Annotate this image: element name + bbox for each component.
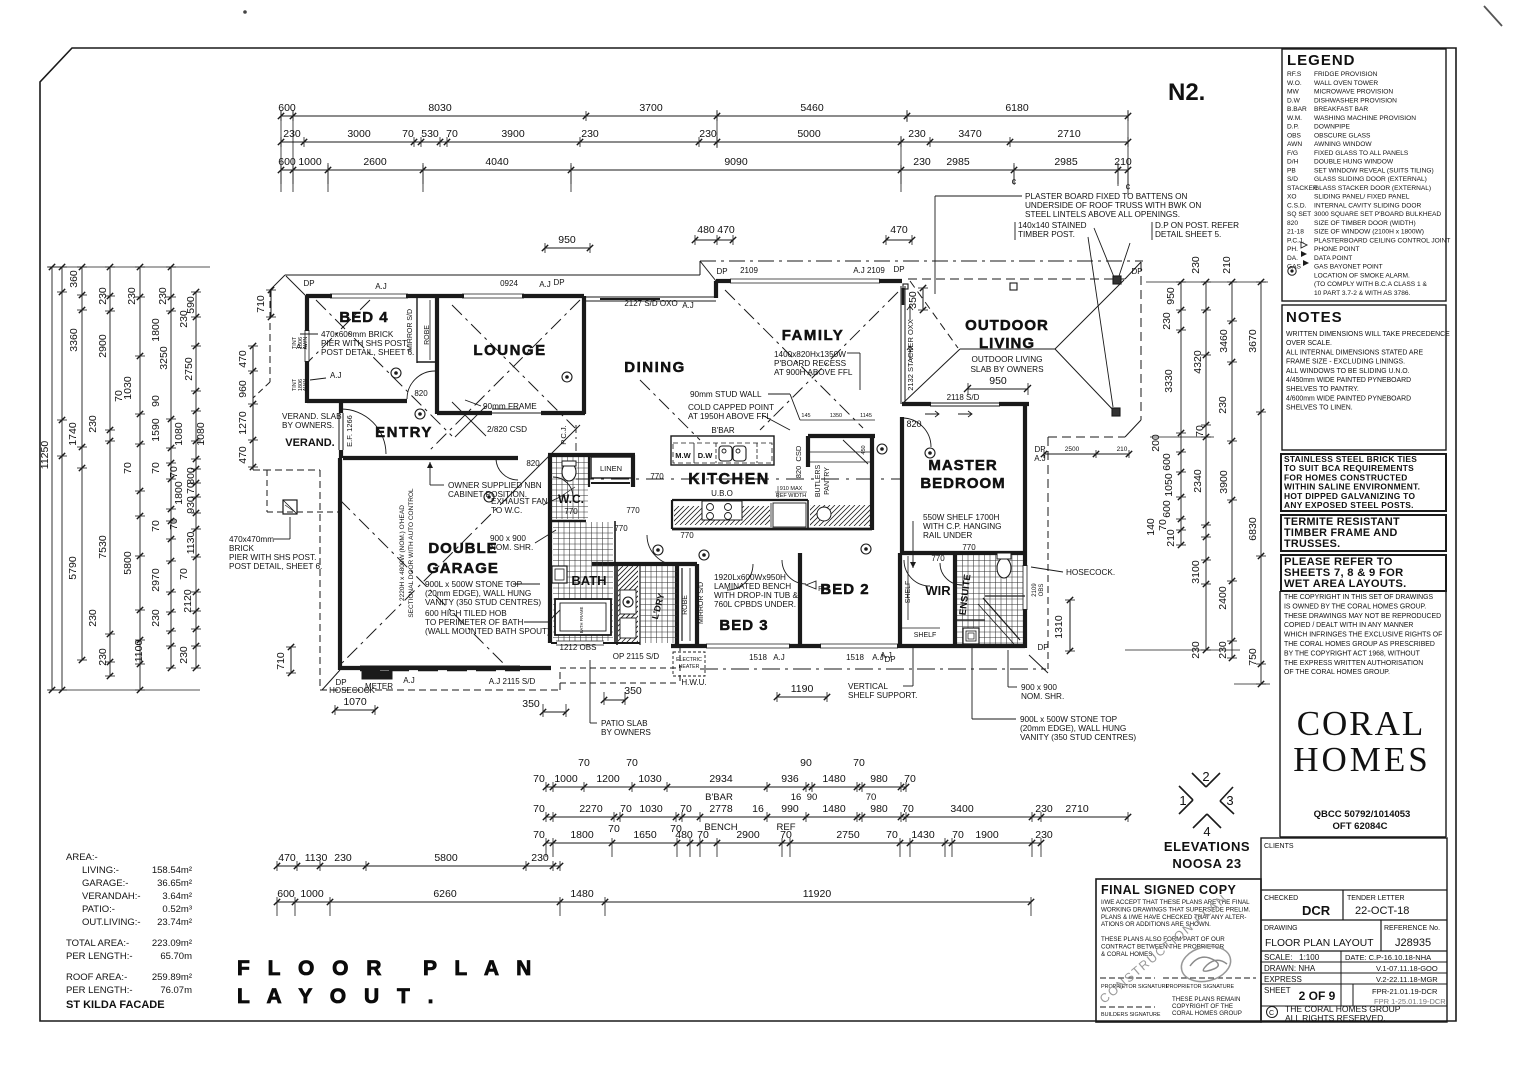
svg-text:1518: 1518 [749, 653, 767, 662]
svg-text:B'BAR: B'BAR [705, 792, 733, 803]
svg-text:11920: 11920 [803, 888, 832, 900]
wall wir-ensuite top [902, 551, 1025, 555]
svg-text:F L O O R P L A N: F L O O R P L A N [237, 957, 537, 980]
svg-text:750: 750 [1247, 648, 1259, 666]
svg-text:3400: 3400 [950, 803, 974, 815]
sliding door 2118 [930, 402, 1000, 404]
ref space [773, 503, 806, 527]
svg-text:UNDERSIDE OF ROOF TRUSS WITH B: UNDERSIDE OF ROOF TRUSS WITH BWK ON [1025, 201, 1201, 210]
svg-text:2500: 2500 [1065, 446, 1080, 453]
dim 480/470 top [695, 239, 733, 241]
stacker door family right [900, 286, 902, 404]
top dimension row 1 [281, 115, 1128, 117]
svg-text:3700: 3700 [639, 102, 663, 114]
svg-text:470: 470 [717, 224, 735, 236]
svg-text:936: 936 [781, 773, 799, 785]
svg-text:360: 360 [68, 270, 80, 288]
svg-text:PIER WITH SHS POST.: PIER WITH SHS POST. [229, 553, 316, 562]
svg-text:XO: XO [1287, 194, 1297, 201]
svg-text:THE COPYRIGHT IN THIS SET OF D: THE COPYRIGHT IN THIS SET OF DRAWINGS [1284, 594, 1433, 601]
svg-text:230: 230 [1190, 256, 1202, 274]
svg-text:PB: PB [1287, 167, 1296, 174]
svg-text:3.64m²: 3.64m² [162, 891, 192, 902]
svg-text:VANITY (350 STUD CENTRES): VANITY (350 STUD CENTRES) [425, 598, 541, 607]
svg-text:POST DETAIL, SHEET 6.: POST DETAIL, SHEET 6. [321, 348, 414, 357]
svg-text:350: 350 [907, 291, 919, 309]
svg-text:LOCATION OF SMOKE ALARM.: LOCATION OF SMOKE ALARM. [1314, 272, 1410, 279]
svg-text:SIZE OF TIMBER DOOR (WIDTH): SIZE OF TIMBER DOOR (WIDTH) [1314, 220, 1416, 227]
svg-text:3000 SQUARE SET P'BOARD BULKHE: 3000 SQUARE SET P'BOARD BULKHEAD [1314, 211, 1441, 218]
wall family jog [714, 281, 718, 298]
sliding door 2127 lounge-dining [584, 296, 716, 298]
svg-text:3330: 3330 [1163, 369, 1175, 393]
svg-text:1030: 1030 [122, 376, 134, 400]
svg-text:SLIDING PANEL/ FIXED PANEL: SLIDING PANEL/ FIXED PANEL [1314, 194, 1410, 201]
svg-text:350: 350 [522, 698, 540, 710]
svg-text:3250: 3250 [158, 346, 170, 370]
svg-text:9090: 9090 [724, 156, 748, 168]
svg-text:600 HIGH TILED HOB: 600 HIGH TILED HOB [425, 609, 507, 618]
svg-text:A.J: A.J [375, 282, 387, 291]
svg-text:LIVING: LIVING [979, 335, 1035, 352]
svg-text:NOM. SHR.: NOM. SHR. [1021, 692, 1064, 701]
svg-text:1130: 1130 [305, 852, 328, 864]
svg-text:2900: 2900 [97, 334, 109, 358]
svg-text:DOUBLE: DOUBLE [428, 540, 497, 557]
svg-text:BUTLERS: BUTLERS [815, 465, 822, 498]
svg-text:70: 70 [853, 757, 865, 769]
dim 1190 [777, 696, 827, 698]
svg-text:DA.: DA. [1287, 255, 1298, 262]
svg-text:THESE PLANS REMAIN: THESE PLANS REMAIN [1172, 996, 1240, 1003]
svg-text:DETAIL SHEET 5.: DETAIL SHEET 5. [1155, 230, 1221, 239]
wall bottom band [671, 644, 707, 648]
svg-text:230: 230 [908, 128, 926, 140]
svg-text:2120: 2120 [182, 589, 194, 613]
annotation kitchen dims [800, 419, 875, 421]
dim 1070 [335, 709, 375, 711]
wall lounge left lower [435, 363, 439, 414]
svg-text:70: 70 [402, 128, 414, 140]
wall family top [716, 279, 731, 283]
svg-text:BED 2: BED 2 [820, 581, 869, 598]
wall wir-ensuite divider [953, 553, 957, 645]
title block [1261, 838, 1447, 1022]
svg-text:5800: 5800 [434, 852, 458, 864]
svg-text:770: 770 [626, 506, 640, 515]
svg-text:MIRROR S/D: MIRROR S/D [698, 582, 705, 624]
svg-text:1130: 1130 [185, 532, 197, 555]
svg-text:90: 90 [807, 792, 818, 803]
svg-text:1800: 1800 [173, 481, 185, 505]
svg-text:BY OWNERS: BY OWNERS [601, 728, 651, 737]
svg-text:2710: 2710 [1065, 803, 1089, 815]
laundry tub area [645, 566, 647, 643]
wall lounge right [582, 296, 586, 414]
svg-text:900 x 900: 900 x 900 [1021, 683, 1057, 692]
svg-text:90: 90 [800, 757, 812, 769]
svg-text:4/450mm WIDE PAINTED PYNEBOARD: 4/450mm WIDE PAINTED PYNEBOARD [1286, 377, 1411, 384]
svg-text:11250: 11250 [39, 441, 51, 470]
dim left entry col [252, 346, 254, 467]
svg-text:WITH C.P. HANGING: WITH C.P. HANGING [923, 522, 1002, 531]
svg-text:AT 900H ABOVE FFL: AT 900H ABOVE FFL [774, 368, 853, 377]
svg-text:230: 230 [334, 852, 352, 864]
svg-text:230: 230 [581, 128, 599, 140]
svg-text:2220H x 4800W (NOM.) O'HEAD: 2220H x 4800W (NOM.) O'HEAD [399, 505, 406, 601]
svg-text:N2.: N2. [1168, 79, 1205, 106]
svg-text:AREA:-: AREA:- [66, 852, 98, 863]
please refer notice box [1281, 555, 1446, 591]
svg-text:2270: 2270 [579, 803, 603, 815]
svg-text:5460: 5460 [800, 102, 824, 114]
svg-text:REFERENCE No.: REFERENCE No. [1384, 925, 1440, 932]
wall kitchen-wc hall [548, 453, 550, 520]
svg-text:2934: 2934 [709, 773, 733, 785]
window band top wall [462, 293, 524, 295]
bottom dim row 1 [546, 786, 906, 788]
window bed2 bottom [820, 643, 898, 645]
svg-text:480: 480 [697, 224, 715, 236]
svg-text:2 OF 9: 2 OF 9 [1299, 989, 1336, 1003]
dim 350 a [543, 711, 566, 713]
svg-text:OP 2115 S/D: OP 2115 S/D [613, 652, 660, 661]
svg-text:3: 3 [1226, 793, 1233, 808]
svg-text:POST DETAIL, SHEET 6.: POST DETAIL, SHEET 6. [229, 562, 322, 571]
svg-text:A.J: A.J [330, 371, 342, 380]
svg-text:BY THE COPYRIGHT ACT 1968, WIT: BY THE COPYRIGHT ACT 1968, WITHOUT [1284, 650, 1421, 657]
top dimension row 2 [281, 141, 1128, 143]
pantry sink [817, 507, 831, 521]
svg-text:ROOF AREA:-: ROOF AREA:- [66, 972, 127, 983]
svg-text:960: 960 [237, 380, 249, 398]
svg-text:PLANS & I/WE HAVE CHECKED THAT: PLANS & I/WE HAVE CHECKED THAT ANY ALTER… [1101, 914, 1246, 921]
svg-text:DATA POINT: DATA POINT [1314, 255, 1352, 262]
legend box [1282, 49, 1446, 301]
svg-text:NOTES: NOTES [1286, 309, 1343, 326]
svg-text:3900: 3900 [1218, 470, 1230, 494]
svg-text:470x470mm: 470x470mm [229, 535, 274, 544]
right block extension lines [1146, 281, 1268, 283]
svg-text:AT 1950H ABOVE FFL: AT 1950H ABOVE FFL [688, 412, 771, 421]
svg-text:710: 710 [255, 295, 267, 313]
svg-text:230: 230 [97, 648, 109, 666]
svg-text:BUILDERS SIGNATURE: BUILDERS SIGNATURE [1101, 1012, 1161, 1018]
svg-text:PHONE POINT: PHONE POINT [1314, 246, 1359, 253]
svg-text:16: 16 [791, 792, 802, 803]
dim 2500 outdoor [1044, 453, 1129, 455]
svg-text:P.C.J.: P.C.J. [1287, 237, 1304, 244]
svg-text:70: 70 [150, 520, 162, 532]
svg-text:SHELF: SHELF [914, 632, 937, 639]
svg-text:2400: 2400 [1217, 586, 1229, 610]
window bed3 bottom [706, 643, 790, 645]
svg-text:OBSCURE GLASS: OBSCURE GLASS [1314, 132, 1371, 139]
svg-text:LAMINATED BENCH: LAMINATED BENCH [714, 582, 791, 591]
dim 470 top [886, 239, 912, 241]
svg-text:SECTIONAL DOOR WITH AUTO CONTR: SECTIONAL DOOR WITH AUTO CONTROL [408, 488, 415, 618]
svg-text:1400x820Hx1350W: 1400x820Hx1350W [774, 350, 846, 359]
svg-text:FRAME SIZE - EXCLUDING LININGS: FRAME SIZE - EXCLUDING LININGS. [1286, 359, 1405, 366]
svg-text:1518: 1518 [846, 653, 864, 662]
svg-text:AWN: AWN [303, 379, 309, 392]
svg-text:70: 70 [533, 773, 545, 785]
svg-text:BEDROOM: BEDROOM [920, 475, 1005, 492]
svg-text:3360: 3360 [68, 328, 80, 352]
svg-text:PANTRY: PANTRY [824, 467, 831, 495]
svg-text:RAIL UNDER: RAIL UNDER [923, 531, 972, 540]
hip diagonals lounge wing [316, 300, 452, 436]
svg-text:GLASS SLIDING DOOR (EXTERNAL): GLASS SLIDING DOOR (EXTERNAL) [1314, 176, 1427, 183]
svg-text:6260: 6260 [433, 888, 457, 900]
ensuite tiles [962, 555, 964, 644]
pcj dash line [575, 425, 577, 452]
svg-text:70: 70 [122, 462, 134, 474]
svg-text:LOUNGE: LOUNGE [473, 342, 546, 359]
svg-text:DP: DP [303, 279, 314, 288]
svg-text:2750: 2750 [183, 357, 195, 381]
centre dash-dot line hall [576, 478, 900, 480]
linen shelves [591, 457, 632, 478]
svg-text:ROBE: ROBE [424, 325, 431, 345]
svg-text:W.C.: W.C. [558, 492, 584, 506]
svg-text:550W SHELF 1700H: 550W SHELF 1700H [923, 513, 1000, 522]
svg-text:COLD CAPPED POINT: COLD CAPPED POINT [688, 403, 774, 412]
svg-text:VERAND. SLAB: VERAND. SLAB [282, 412, 342, 421]
svg-text:SHEET: SHEET [1264, 986, 1291, 995]
svg-text:4320: 4320 [1192, 350, 1204, 374]
svg-text:480: 480 [675, 829, 693, 841]
svg-text:1920Lx600Wx950H: 1920Lx600Wx950H [714, 573, 786, 582]
svg-text:DOWNPIPE: DOWNPIPE [1314, 124, 1351, 131]
door master 820 [902, 418, 931, 447]
svg-text:DP: DP [1131, 267, 1142, 276]
wall entry left [339, 401, 343, 413]
svg-text:230: 230 [178, 646, 190, 664]
svg-text:2750: 2750 [836, 829, 860, 841]
svg-text:P'BOARD RECESS: P'BOARD RECESS [774, 359, 847, 368]
svg-text:770: 770 [564, 507, 578, 516]
svg-text:PLASTER BOARD FIXED TO BATTENS: PLASTER BOARD FIXED TO BATTENS ON [1025, 192, 1188, 201]
hip diagonals entry-garage [340, 500, 505, 665]
svg-text:H.W.U.: H.W.U. [681, 678, 706, 687]
svg-text:230: 230 [157, 287, 169, 305]
window master right 2109 OBS [1022, 565, 1024, 610]
svg-text:PER LENGTH:-: PER LENGTH:- [66, 985, 133, 996]
svg-text:BATH: BATH [571, 573, 606, 588]
svg-text:CORAL: CORAL [1297, 704, 1426, 743]
svg-text:259.89m²: 259.89m² [152, 972, 192, 983]
pantry shelf lines [810, 451, 870, 453]
notes box [1282, 305, 1446, 450]
termite notice box [1281, 515, 1446, 551]
svg-text:800: 800 [185, 467, 197, 485]
svg-text:350: 350 [624, 685, 642, 697]
svg-text:VERTICAL: VERTICAL [848, 682, 888, 691]
svg-text:B'BAR: B'BAR [711, 426, 735, 435]
svg-text:RF.S: RF.S [1287, 71, 1302, 78]
svg-text:950: 950 [558, 234, 576, 246]
svg-text:210: 210 [1117, 446, 1128, 453]
svg-text:WORKING DRAWINGS THAT SUPERSED: WORKING DRAWINGS THAT SUPERSEDE PRELIM. [1101, 906, 1251, 913]
svg-text:4: 4 [1203, 824, 1210, 839]
electric heater box [673, 652, 705, 676]
svg-text:OFT 62084C: OFT 62084C [1333, 821, 1388, 832]
svg-text:BRICK: BRICK [229, 544, 255, 553]
svg-text:2985: 2985 [946, 156, 970, 168]
bottom dim row B [277, 901, 1031, 903]
svg-text:820: 820 [526, 459, 540, 468]
svg-text:900 x 900: 900 x 900 [490, 534, 526, 543]
svg-text:2/820 CSD: 2/820 CSD [487, 425, 527, 434]
svg-text:600: 600 [1161, 500, 1173, 518]
ensuite vanity [963, 628, 979, 644]
svg-text:A.J 2115 S/D: A.J 2115 S/D [489, 677, 536, 686]
svg-text:PATIO:-: PATIO:- [82, 904, 115, 915]
svg-text:QBCC 50792/1014053: QBCC 50792/1014053 [1314, 809, 1411, 820]
svg-text:GAS BAYONET POINT: GAS BAYONET POINT [1314, 264, 1383, 271]
svg-text:70: 70 [150, 462, 162, 474]
svg-text:1000: 1000 [298, 156, 322, 168]
svg-text:PROPRIETOR SIGNATURE: PROPRIETOR SIGNATURE [1166, 984, 1234, 990]
svg-text:ROBE: ROBE [682, 595, 689, 615]
svg-text:210: 210 [1114, 156, 1132, 168]
svg-text:HEATER: HEATER [679, 664, 700, 670]
wall ensuite fixtures divider [955, 619, 985, 621]
wall wc top [548, 453, 635, 457]
svg-text:A.J: A.J [682, 301, 694, 310]
svg-text:1650: 1650 [633, 829, 657, 841]
svg-text:P.C.J.: P.C.J. [559, 425, 568, 444]
svg-text:16: 16 [752, 803, 764, 815]
svg-text:BREAKFAST BAR: BREAKFAST BAR [1314, 106, 1368, 113]
svg-text:820: 820 [906, 419, 921, 429]
svg-text:600: 600 [1161, 453, 1173, 471]
wall laundry [616, 564, 618, 645]
svg-text:CLIENTS: CLIENTS [1264, 843, 1294, 850]
svg-text:210: 210 [1221, 256, 1233, 274]
svg-text:D.P.: D.P. [1287, 124, 1299, 131]
svg-text:WALL OVEN TOWER: WALL OVEN TOWER [1314, 80, 1378, 87]
svg-text:900L x 500W STONE TOP: 900L x 500W STONE TOP [425, 580, 523, 589]
svg-text:470: 470 [237, 350, 249, 368]
svg-text:145: 145 [801, 413, 810, 419]
outdoor living posts [1010, 283, 1017, 290]
svg-text:1: 1 [1179, 793, 1186, 808]
pantry cavity door diagonal [843, 440, 868, 464]
svg-text:1480: 1480 [570, 888, 594, 900]
svg-text:23.74m²: 23.74m² [157, 917, 192, 928]
svg-text:TOTAL AREA:-: TOTAL AREA:- [66, 938, 129, 949]
svg-text:DISHWASHER PROVISION: DISHWASHER PROVISION [1314, 97, 1397, 104]
svg-text:SIZE OF WINDOW (2100H x 1800W): SIZE OF WINDOW (2100H x 1800W) [1314, 229, 1424, 236]
svg-text:950: 950 [1165, 287, 1177, 305]
svg-text:3670: 3670 [1247, 329, 1259, 353]
svg-text:OF THE CORAL HOMES GROUP.: OF THE CORAL HOMES GROUP. [1284, 669, 1390, 676]
svg-text:BATH FRAME: BATH FRAME [579, 606, 584, 633]
hip diagonals family [725, 290, 863, 428]
svg-text:1080: 1080 [173, 422, 185, 446]
wall robe bed3 [695, 564, 699, 645]
svg-text:1070: 1070 [343, 696, 367, 708]
svg-text:FLOOR PLAN LAYOUT: FLOOR PLAN LAYOUT [1265, 938, 1374, 949]
wall bath right [614, 521, 616, 643]
svg-text:DOUBLE HUNG WINDOW: DOUBLE HUNG WINDOW [1314, 159, 1394, 166]
right dimension block [1180, 282, 1182, 545]
svg-text:OWNER SUPPLIED NBN: OWNER SUPPLIED NBN [448, 481, 542, 490]
svg-text:70: 70 [904, 773, 916, 785]
svg-text:2985: 2985 [1054, 156, 1078, 168]
wc pan [562, 463, 576, 481]
wall linen right [631, 455, 635, 487]
svg-text:TO W.C.: TO W.C. [491, 506, 522, 515]
svg-text:FIXED GLASS TO ALL PANELS: FIXED GLASS TO ALL PANELS [1314, 150, 1409, 157]
roof corner mitres [286, 276, 306, 296]
svg-text:E.F. 1266: E.F. 1266 [345, 415, 354, 447]
svg-text:230: 230 [531, 852, 549, 864]
svg-text:PATIO SLAB: PATIO SLAB [601, 719, 648, 728]
svg-text:470: 470 [237, 446, 249, 464]
svg-text:VERANDAH:-: VERANDAH:- [82, 891, 141, 902]
svg-text:2340: 2340 [1192, 469, 1204, 493]
wall wc-bath divider [548, 520, 586, 523]
svg-text:S/D: S/D [1287, 176, 1298, 183]
wall outdoor-master [902, 402, 931, 406]
svg-text:METER: METER [365, 682, 393, 691]
svg-text:OBS: OBS [1039, 584, 1045, 597]
svg-text:820: 820 [1287, 220, 1298, 227]
svg-text:THESE DRAWINGS MAY NOT BE REPR: THESE DRAWINGS MAY NOT BE REPRODUCED [1284, 613, 1441, 620]
svg-text:760L CPBDS UNDER.: 760L CPBDS UNDER. [714, 600, 796, 609]
svg-text:WITH DROP-IN TUB &: WITH DROP-IN TUB & [714, 591, 799, 600]
svg-text:LEGEND: LEGEND [1287, 52, 1356, 69]
svg-text:FPR-21.01.19-DCR: FPR-21.01.19-DCR [1372, 987, 1438, 996]
svg-text:W.O.: W.O. [1287, 80, 1302, 87]
svg-text:230: 230 [283, 128, 301, 140]
svg-text:MICROWAVE PROVISION: MICROWAVE PROVISION [1314, 89, 1393, 96]
laundry machines [620, 590, 636, 614]
svg-text:A.J: A.J [1034, 454, 1046, 463]
svg-text:2900: 2900 [736, 829, 760, 841]
svg-text:HOMES: HOMES [1293, 740, 1431, 779]
wall garage bottom [340, 666, 551, 670]
svg-text:230: 230 [87, 415, 99, 433]
svg-text:2778: 2778 [709, 803, 733, 815]
wall bed4 left [305, 296, 309, 331]
svg-text:70: 70 [446, 128, 458, 140]
svg-text:230: 230 [1161, 312, 1173, 330]
svg-text:0.52m³: 0.52m³ [162, 904, 192, 915]
svg-text:ALL WINDOWS TO BE SLIDING U.N.: ALL WINDOWS TO BE SLIDING U.N.O. [1286, 368, 1410, 375]
bbar sink [719, 446, 732, 461]
garage door band [360, 665, 520, 667]
svg-text:70: 70 [886, 829, 898, 841]
svg-text:ALL INTERNAL DIMENSIONS STATED: ALL INTERNAL DIMENSIONS STATED ARE [1286, 349, 1423, 356]
svg-text:A.J: A.J [539, 280, 551, 289]
svg-text:2127 S/D OXO: 2127 S/D OXO [624, 299, 677, 308]
svg-text:OUT.LIVING:-: OUT.LIVING:- [82, 917, 141, 928]
svg-text:450: 450 [861, 445, 867, 454]
svg-text:7530: 7530 [97, 535, 109, 559]
svg-text:10 PART 3.7-2 & WITH AS 3786.: 10 PART 3.7-2 & WITH AS 3786. [1314, 290, 1411, 297]
svg-text:U.B.O: U.B.O [711, 489, 733, 498]
svg-text:230: 230 [699, 128, 717, 140]
svg-text:(WALL MOUNTED BATH SPOUT): (WALL MOUNTED BATH SPOUT) [425, 627, 550, 636]
svg-text:1050: 1050 [1163, 473, 1175, 497]
svg-text:90mm STUD WALL: 90mm STUD WALL [690, 390, 762, 399]
wall bed2-wir divider [898, 553, 902, 645]
dim 350 stacker [922, 288, 924, 310]
